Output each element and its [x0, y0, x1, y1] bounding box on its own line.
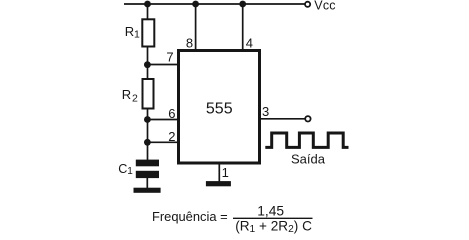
wire: pin 7 to IC: [148, 64, 180, 66]
svg-text:6: 6: [168, 106, 175, 121]
wire: pin 3 output: [260, 118, 305, 120]
node: junction rail/R1: [144, 1, 151, 8]
waveform: square wave output: [265, 133, 348, 147]
svg-text:1,45: 1,45: [257, 203, 284, 218]
ground: below pin 1: [206, 181, 231, 186]
svg-text:1: 1: [222, 165, 229, 180]
node: junction rail/pin8: [192, 1, 199, 8]
wire: Vcc top rail: [124, 3, 305, 5]
capacitor C1 plate top: [136, 160, 159, 167]
formula: fraction bar: [233, 217, 313, 219]
node: junction rail/pin4: [239, 1, 246, 8]
wire: R1 bottom to R2 top: [147, 47, 149, 80]
wire: R2 bottom to C1 top: [147, 109, 149, 161]
svg-text:C: C: [118, 162, 127, 176]
svg-text:Saída: Saída: [291, 152, 326, 167]
terminal: output open circle: [305, 116, 310, 121]
svg-text:(R1 + 2R2) C: (R1 + 2R2) C: [235, 219, 312, 236]
wire: pin 2 to IC: [148, 141, 180, 143]
op IC U1 555 box: [179, 51, 260, 164]
wire: pin 1 to ground: [218, 163, 220, 182]
resistor R1: [142, 19, 154, 46]
svg-text:4: 4: [246, 36, 253, 51]
wire: C1 to ground: [146, 178, 148, 188]
capacitor C1 plate bottom: [136, 171, 159, 178]
svg-text:Vcc: Vcc: [314, 0, 335, 13]
wire: rail to R1 top: [147, 4, 149, 19]
svg-text:555: 555: [206, 101, 233, 118]
node: junction pin2: [144, 139, 151, 146]
svg-text:1: 1: [127, 166, 133, 177]
svg-text:R: R: [125, 24, 134, 39]
svg-text:Frequência =: Frequência =: [152, 209, 228, 224]
svg-text:R: R: [122, 87, 131, 102]
wire: pin 4 to rail: [242, 4, 244, 50]
node: junction pin7: [144, 61, 151, 68]
svg-text:2: 2: [132, 92, 138, 104]
svg-text:7: 7: [166, 50, 173, 65]
svg-text:8: 8: [186, 36, 193, 51]
node: junction pin6: [144, 116, 151, 123]
terminal: Vcc open circle: [305, 2, 310, 7]
resistor R2: [143, 79, 154, 109]
svg-text:3: 3: [262, 104, 269, 119]
svg-text:2: 2: [168, 129, 175, 144]
wire: pin 8 to rail: [195, 4, 197, 50]
svg-text:1: 1: [134, 28, 140, 40]
wire: pin 6 to IC: [148, 119, 180, 121]
ground: below C1: [134, 188, 161, 193]
